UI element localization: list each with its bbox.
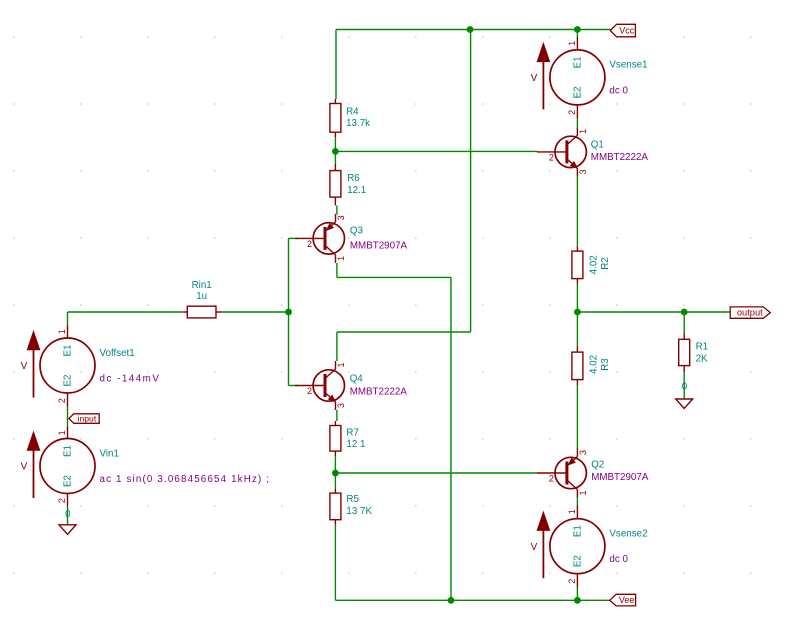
resistor R1 [683,333,685,339]
resistor Rin1 [182,311,187,313]
svg-text:3: 3 [336,215,346,220]
wire output node to R3 [576,312,578,346]
svg-text:1: 1 [578,490,588,495]
svg-text:Vsense1: Vsense1 [609,60,647,71]
wire Q4 collector riser [336,332,338,361]
svg-text:Q3: Q3 [350,225,364,236]
Vsense2 polarity arrow [542,530,544,578]
wire junction B to R5 [334,473,336,489]
wire junction A to Q1 base [335,150,537,152]
junction Vcc rail / Q4 collector net [467,26,474,33]
wire Vsense1 pin 2 to Q1 collector [576,118,578,127]
svg-text:E1: E1 [572,525,583,537]
power flag Vcc [610,24,635,37]
Voffset1 polarity arrow [33,350,35,398]
transistor Q2 MMBT2907A [555,457,586,488]
junction Vcc rail / Vsense1 [574,26,581,33]
resistor R4 [334,99,336,104]
svg-text:Q1: Q1 [591,140,604,151]
svg-text:0: 0 [65,509,71,520]
svg-text:2: 2 [57,498,67,503]
junction input node at Rin1 [285,309,292,316]
wire Vcc to Vsense1 pin 1 [576,30,578,38]
ground symbol (net 0) [676,399,693,409]
transistor Q3 MMBT2907A [313,223,344,254]
svg-text:V: V [21,361,28,372]
wire R2 to output node [576,284,578,312]
resistor R6 [334,164,336,171]
svg-text:13 7K: 13 7K [346,506,372,517]
svg-text:Q4: Q4 [350,373,364,384]
svg-text:V: V [21,462,28,473]
ground symbol (net 0) [59,525,76,535]
svg-text:3: 3 [336,403,346,408]
wire Q3 emitter horizontal [337,276,451,278]
svg-text:E2: E2 [63,375,74,387]
wire Rin1 to input node [222,311,288,313]
svg-text:Voffset1: Voffset1 [100,348,135,359]
resistor R5 [334,489,336,494]
svg-text:E1: E1 [63,445,74,457]
svg-text:1: 1 [567,509,577,514]
svg-text:dc -144mV: dc -144mV [100,373,161,384]
svg-text:V: V [531,73,538,84]
wire Vsense2 pin 2 to Vee rail [576,587,578,600]
svg-text:R7: R7 [346,427,359,438]
voltage source Vsense2 (dc 0) [550,519,605,574]
wire junction A to R6 [334,151,336,163]
svg-text:Vcc: Vcc [619,25,635,35]
svg-text:V: V [531,542,538,553]
voltage source Vsense1 (dc 0) [550,50,605,105]
svg-text:output: output [737,308,763,318]
svg-text:E2: E2 [572,86,583,98]
wire Q4 collector horizontal [337,331,471,333]
global label output [730,307,770,318]
wire Vin1 pin 2 to ground [67,507,69,525]
svg-text:4.02: 4.02 [588,255,599,274]
wire Q3 emitter drop [336,263,338,277]
voltage source Voffset1 (dc -144mV) [40,338,95,393]
svg-text:E1: E1 [63,345,74,357]
svg-text:3: 3 [578,169,588,174]
resistor R2 [576,246,578,251]
wire R5 to Vee rail [334,525,336,601]
svg-text:2: 2 [307,239,312,249]
svg-text:2: 2 [567,110,577,115]
svg-text:1: 1 [336,256,346,261]
svg-text:dc 0: dc 0 [609,554,628,565]
wire Vee rail bottom [335,599,609,601]
junction node B R7-R5-Q2 base [332,470,339,477]
wire R1 to ground [683,372,685,399]
wire R4 to junction A [334,137,336,151]
wire Vcc rail top [336,29,610,31]
wire R3 to Q2 collector [576,385,578,449]
svg-text:R1: R1 [696,341,709,352]
svg-text:E2: E2 [572,555,583,567]
junction Vee rail / Q3 emitter net [448,597,455,604]
junction Vee rail / Vsense2 [574,597,581,604]
svg-text:Vee: Vee [619,595,635,605]
svg-text:MMBT2222A: MMBT2222A [591,152,649,163]
transistor Q1 MMBT2222A [555,136,586,167]
svg-text:13.7k: 13.7k [346,118,370,129]
svg-text:1: 1 [57,430,67,435]
svg-text:R2: R2 [600,257,611,270]
svg-text:Q2: Q2 [591,460,604,471]
svg-text:R4: R4 [346,106,359,117]
svg-text:1: 1 [578,129,588,134]
svg-text:Rin1: Rin1 [192,280,212,291]
svg-text:MMBT2907A: MMBT2907A [591,472,649,483]
svg-text:Vsense2: Vsense2 [609,528,647,539]
wire to Q4 base [289,385,298,387]
svg-text:1: 1 [336,362,346,367]
resistor R3 [576,346,578,352]
svg-text:4.02: 4.02 [588,355,599,374]
svg-text:E1: E1 [572,56,583,68]
svg-text:Vin1: Vin1 [100,448,119,459]
wire Q4 emitter to R7 [336,410,338,421]
svg-text:0: 0 [682,381,688,392]
svg-text:MMBT2907A: MMBT2907A [350,240,408,251]
svg-text:1u: 1u [196,291,207,302]
svg-text:1: 1 [57,329,67,334]
svg-text:1: 1 [567,41,577,46]
global label input [69,414,99,424]
wire Q2 emitter to Vsense2 pin 1 [576,498,578,506]
svg-text:12.1: 12.1 [347,185,366,196]
svg-text:ac 1 sin(0 3.068456654 1kHz) ;: ac 1 sin(0 3.068456654 1kHz) ; [100,474,271,485]
power flag Vee [610,594,636,606]
wire output node to R1 [683,312,685,333]
svg-text:input: input [78,413,97,423]
svg-text:2: 2 [307,386,312,396]
wire Voffset1 to Rin1 [68,311,183,313]
svg-text:2: 2 [57,398,67,403]
wire output node to output flag [577,311,730,313]
svg-text:E2: E2 [63,475,74,487]
svg-text:2K: 2K [696,353,708,364]
svg-text:2: 2 [549,152,554,162]
wire Q3 emitter net down to Vee rail [450,277,452,600]
wire Voffset1 riser [67,312,69,325]
Vin1 polarity arrow [33,450,35,498]
svg-text:dc 0: dc 0 [609,85,628,96]
junction output node at R1 [681,309,688,316]
svg-text:R6: R6 [347,173,360,184]
svg-text:3: 3 [578,450,588,455]
wire input node vertical Q3 base to Q4 base [288,238,290,385]
wire input net Voffset1 pin2 to Vin1 pin1 [67,407,69,427]
svg-text:12 1: 12 1 [346,439,365,450]
voltage source Vin1 (ac 1 sin(0 3.068456654 1kHz) ;) [40,439,95,494]
wire to Q3 base [289,237,298,239]
svg-text:R3: R3 [600,358,611,371]
resistor R7 [334,421,336,426]
svg-text:MMBT2222A: MMBT2222A [350,386,408,397]
transistor Q4 MMBT2222A [313,370,344,401]
junction output node at R2-R3 [574,309,581,316]
svg-text:2: 2 [549,474,554,484]
wire Vcc drop to Q4 collector net [470,30,472,333]
wire R6 to Q3 collector [336,206,338,215]
wire R4 top vertical [335,30,337,100]
wire Q1 emitter to R2 [576,176,578,246]
Vsense1 polarity arrow [542,61,544,109]
svg-text:R5: R5 [346,494,359,505]
wire R7-R5 junction to Q2 base [335,472,537,474]
svg-text:2: 2 [567,579,577,584]
wire R7 to junction B [334,456,336,473]
junction node A R4-R6-Q1 base [332,148,339,155]
